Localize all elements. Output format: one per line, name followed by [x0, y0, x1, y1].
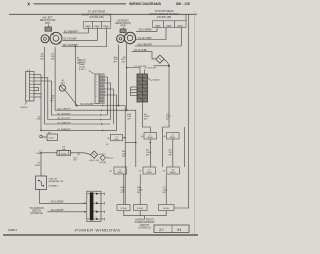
wire: junction down to splice dot — [74, 47, 76, 105]
svg-text:2: 2 — [96, 192, 97, 194]
wire conn B pin2 riser — [144, 70, 146, 75]
label A10 12R/BK — [50, 201, 64, 204]
motor M1 (left rear window motor) — [41, 32, 62, 44]
svg-text:J938W-1: J938W-1 — [8, 230, 18, 232]
label under c1 — [122, 150, 127, 158]
svg-text:BK*: BK* — [122, 62, 126, 64]
svg-text:7: 7 — [26, 93, 27, 95]
svg-text:PINK: PINK — [94, 27, 100, 29]
svg-text:FUSE: FUSE — [61, 154, 67, 156]
svg-text:(LEFT): (LEFT) — [79, 69, 86, 71]
svg-text:(ON 8W-135): (ON 8W-135) — [157, 16, 172, 19]
wire C2 label stub to connector B pin — [126, 67, 140, 74]
svg-text:BLACK: BLACK — [153, 78, 161, 81]
svg-text:B3 14YL/WT*: B3 14YL/WT* — [58, 118, 71, 120]
label F2 14RD upper — [36, 116, 41, 120]
label Q26 14BK/WT — [137, 44, 153, 46]
component G1 box — [42, 132, 57, 140]
splice diamond S3 — [91, 151, 98, 158]
wire fan pin stubs to feed — [34, 74, 41, 76]
svg-text:1: 1 — [96, 76, 97, 78]
label on c1 drop — [127, 113, 132, 121]
right page border — [194, 11, 196, 235]
wire M1 pin3 — [62, 28, 107, 46]
switch block row1 box2 — [144, 133, 157, 140]
svg-text:3: 3 — [26, 80, 27, 82]
svg-text:PINK: PINK — [103, 27, 109, 29]
label above f3 — [163, 187, 169, 194]
label C2 14YL/BK — [134, 66, 147, 68]
label A2 on motor1 drop — [50, 95, 55, 103]
svg-text:WT*: WT* — [127, 119, 131, 121]
switch block row2 box3 — [167, 167, 180, 174]
svg-text:BK*: BK* — [163, 192, 167, 194]
ref diamond 8W-12 — [100, 155, 114, 164]
node: dot M2A on B2 wire — [118, 105, 120, 107]
label SET 14RD/BK — [63, 45, 79, 47]
svg-text:PANEL: PANEL — [170, 171, 176, 174]
svg-text:3: 3 — [96, 82, 97, 84]
label B2 14YL down-wire — [121, 57, 127, 64]
svg-text:WIRING DIAGRAMS: WIRING DIAGRAMS — [129, 2, 162, 6]
svg-text:PANEL: PANEL — [117, 171, 123, 174]
callout: to ignition switch — [29, 208, 44, 215]
svg-text:PINK: PINK — [166, 26, 172, 28]
svg-text:(30 AMP): (30 AMP) — [49, 185, 58, 188]
motor M1 label (in left rear door) — [40, 17, 56, 25]
in-line connector ring on feed — [40, 135, 43, 138]
svg-text:PANEL: PANEL — [147, 136, 153, 139]
svg-text:A10 12R/BK*: A10 12R/BK* — [50, 201, 64, 204]
svg-text:B2 14RD/BK*: B2 14RD/BK* — [58, 113, 71, 115]
fuse box f3 — [159, 205, 175, 211]
wire: M2 down A — [118, 45, 120, 106]
callout: to right rear door window switch — [150, 10, 179, 19]
switch block row2 box2 — [143, 167, 156, 174]
fuse box f2 — [134, 205, 148, 211]
wire M1 pin2 — [63, 28, 98, 40]
wire A pin1 drop — [104, 77, 108, 115]
wire fan pin2 — [34, 78, 111, 120]
motor M2 (right rear window motor) — [117, 32, 136, 43]
label T50 under wire — [73, 157, 77, 161]
header title — [129, 2, 190, 6]
label above splice — [61, 79, 66, 84]
label B2 14BR/WT — [64, 31, 79, 33]
switch col c5 — [172, 139, 174, 167]
node dot c2 link — [135, 142, 137, 144]
label B2 14YL/BK splice run — [81, 104, 95, 106]
label A2 14B down-wire — [40, 53, 45, 61]
wire feed to breaker — [40, 154, 42, 176]
footer drawing number — [8, 230, 18, 232]
wire diamond to dot — [164, 60, 169, 66]
label BLACK for connector B — [153, 78, 161, 81]
switch col c4 — [162, 131, 164, 167]
svg-text:BK*: BK* — [144, 119, 148, 121]
motor M2 connector stub — [120, 29, 126, 33]
wire: M1 down A (to band) — [45, 47, 110, 124]
wire A pin7 drop — [104, 95, 117, 130]
svg-text:FUSE: FUSE — [137, 208, 143, 210]
label 8W-12 — [90, 144, 110, 162]
svg-text:E2 14YL/BK*: E2 14YL/BK* — [64, 39, 78, 41]
label under c3 — [146, 150, 152, 157]
wire fan pin3 — [34, 81, 108, 115]
svg-text:8W-12: 8W-12 — [107, 158, 114, 160]
svg-text:REAR DOOR): REAR DOOR) — [115, 22, 131, 25]
switch block row1 box3 — [167, 133, 180, 140]
link box1 to c1 — [123, 137, 126, 139]
in-line connector mark — [78, 152, 80, 155]
label under c5 — [169, 150, 175, 157]
svg-text:14R: 14R — [36, 119, 40, 121]
stub A pin2 — [104, 79, 106, 81]
node: dot under diamond — [168, 65, 170, 67]
fuse F8 — [57, 147, 71, 156]
splice diamond S2 — [156, 55, 164, 63]
connector B (right door, hatched) — [137, 74, 148, 102]
wire A pin3 drop — [104, 83, 111, 120]
svg-text:PINK: PINK — [155, 26, 161, 28]
junction on SET wire — [75, 46, 77, 48]
svg-text:BK*: BK* — [137, 192, 141, 194]
svg-text:(M): (M) — [41, 58, 45, 60]
node dot c3 — [150, 142, 152, 144]
wire riser callout-R to rule — [185, 14, 187, 20]
svg-text:POWER WINDOWS: POWER WINDOWS — [75, 227, 121, 232]
svg-text:BK*: BK* — [166, 119, 170, 121]
label on B drop — [144, 114, 150, 121]
wire B2 splice run — [77, 106, 126, 135]
svg-text:(ON 8W-12): (ON 8W-12) — [138, 227, 151, 229]
svg-text:WT*: WT* — [50, 100, 54, 102]
svg-text:4: 4 — [96, 85, 97, 87]
connector bracket left (PINK cells) — [84, 21, 111, 28]
svg-text:(M): (M) — [51, 58, 55, 60]
switch col c3 — [149, 139, 151, 167]
connector bracket right (PINK cells) — [153, 21, 187, 28]
page mark X — [27, 2, 31, 7]
motor M2 label (in right rear door) — [115, 19, 131, 27]
svg-text:WT*: WT* — [121, 192, 125, 194]
stub A pin6 — [104, 91, 106, 93]
label E2 14YL/BK — [64, 39, 78, 41]
wire M1 pin1 — [63, 28, 89, 33]
node: dot M2B — [126, 109, 128, 111]
node: feed junction — [40, 130, 42, 132]
label circuit breaker — [49, 179, 64, 188]
svg-text:2: 2 — [26, 77, 27, 79]
svg-text:8: 8 — [26, 96, 27, 98]
svg-text:FUSE: FUSE — [163, 208, 169, 210]
svg-text:8: 8 — [96, 217, 97, 219]
svg-text:7: 7 — [96, 94, 97, 96]
svg-text:A10 14R/BK*: A10 14R/BK* — [139, 29, 153, 32]
label A1 14R (A) — [77, 57, 81, 65]
label F2 14RD lower — [35, 162, 41, 166]
col f2 feed — [139, 174, 141, 205]
connector C1 (left bulkhead) — [26, 70, 35, 101]
node dot c1 — [124, 137, 126, 139]
label Q1 14YL/BK — [138, 38, 152, 40]
svg-text:FUSE: FUSE — [121, 208, 127, 210]
wire to fuse — [41, 152, 57, 154]
svg-text:Q1 14YL/BK*: Q1 14YL/BK* — [138, 38, 152, 40]
riser c6 top — [183, 127, 185, 131]
svg-text:94: 94 — [177, 227, 182, 232]
svg-text:(ON 8W-12): (ON 8W-12) — [30, 213, 43, 215]
svg-text:ZJ: ZJ — [159, 227, 163, 232]
wire splice to dot — [65, 90, 76, 105]
wire fuse to diamond — [71, 153, 91, 155]
wire A pin5 drop — [104, 89, 114, 124]
wire connector B bottom drop — [142, 102, 150, 133]
svg-text:PANEL: PANEL — [170, 136, 176, 139]
connector A (left door) — [95, 74, 104, 103]
svg-text:MTR: MTR — [121, 26, 126, 28]
arrow to connector B — [148, 78, 152, 81]
label A10 14R/BK — [139, 29, 153, 32]
svg-text:BREAKER #28: BREAKER #28 — [49, 180, 64, 183]
svg-text:G201: G201 — [49, 138, 55, 140]
band wire labels — [58, 108, 72, 111]
svg-text:PINK: PINK — [178, 26, 184, 28]
wire M2 pin2 — [136, 28, 166, 40]
switch col c1 — [124, 134, 126, 204]
row2 left tick labels — [110, 171, 166, 173]
circuit breaker CB28 — [36, 176, 47, 190]
svg-text:5: 5 — [96, 88, 97, 90]
svg-text:6: 6 — [96, 210, 97, 212]
link c1 to c2 — [125, 142, 136, 144]
svg-text:1: 1 — [26, 73, 27, 75]
svg-text:MOT: MOT — [61, 82, 66, 84]
svg-text:B2 14BR/WT*: B2 14BR/WT* — [64, 31, 79, 33]
svg-text:REAR DOOR): REAR DOOR) — [40, 19, 56, 22]
arrow to connector A — [89, 71, 95, 75]
label BLACK under connector C1 — [21, 102, 29, 109]
in-line marks on band wires — [100, 105, 103, 132]
svg-text:BLACK: BLACK — [21, 106, 29, 109]
top rule — [9, 13, 197, 15]
svg-text:(M) (B): (M) (B) — [100, 162, 107, 164]
footer rule — [3, 234, 198, 236]
svg-text:E3 14BR/WT*: E3 14BR/WT* — [58, 129, 72, 131]
svg-text:C2 14YL/BK*: C2 14YL/BK* — [134, 66, 147, 68]
wire from dot to left — [154, 65, 170, 67]
svg-text:MTR: MTR — [45, 23, 50, 25]
label Q 14YL/BK on drop — [166, 114, 172, 121]
fuse box f1 — [117, 205, 130, 211]
wire M2 pin3 — [135, 28, 182, 47]
motor M1 connector stub — [45, 27, 52, 31]
wire: M1 down B (to band) — [55, 47, 127, 110]
label A10 14R/WT down-wire — [113, 56, 118, 64]
bus under fuses — [124, 211, 166, 220]
switch col c6 — [183, 131, 185, 167]
svg-text:E2 14BR/WT*: E2 14BR/WT* — [58, 122, 72, 124]
svg-text:8: 8 — [96, 97, 97, 99]
wire breaker to connector C pin2 — [40, 190, 86, 204]
svg-text:Q2 14YL/BK: Q2 14YL/BK — [134, 50, 147, 52]
svg-text:BK*: BK* — [169, 154, 173, 156]
svg-text:4: 4 — [96, 202, 97, 204]
switch col c2 — [135, 133, 137, 168]
svg-text:B2 14YL/BK*: B2 14YL/BK* — [81, 104, 95, 106]
label above f1 — [121, 186, 126, 194]
svg-text:A11 12R/WT*: A11 12R/WT* — [50, 209, 64, 212]
svg-text:A10 14R/WT*: A10 14R/WT* — [58, 108, 72, 111]
callout: to left rear door window switch — [82, 11, 111, 20]
svg-text:14RD: 14RD — [35, 165, 41, 167]
svg-text:PANEL: PANEL — [114, 138, 120, 141]
switch block row1 box1 — [111, 134, 123, 141]
label under diamond — [145, 68, 157, 70]
footer POWER WINDOWS — [75, 227, 121, 232]
arrow into pin2 — [84, 202, 86, 204]
svg-text:4: 4 — [26, 83, 27, 85]
wire M2 pin4 to diamond — [132, 52, 156, 59]
svg-text:Q26 14BK/WT: Q26 14BK/WT — [137, 44, 153, 46]
col f3 feed — [165, 175, 167, 205]
svg-text:(ON 8W-135): (ON 8W-135) — [89, 16, 104, 19]
wire M2 pin1 — [136, 28, 157, 32]
label A11 12R/WT — [50, 209, 64, 212]
wire: M2 down B — [126, 44, 128, 111]
header rule left — [34, 3, 127, 5]
svg-text:30A: 30A — [62, 148, 66, 151]
wire riser callout-L to rule — [110, 14, 112, 21]
label BLACK OUTER for connector A — [79, 58, 86, 71]
connector C2 (switch feed) — [87, 191, 105, 221]
svg-text:E2 14YL/BK: E2 14YL/BK — [145, 68, 157, 70]
wire: dot down to switch column — [163, 66, 169, 131]
col f1 feed — [123, 174, 125, 205]
svg-text:WT*: WT* — [122, 156, 126, 158]
label E2 14B down-wire — [50, 54, 55, 61]
wire band2 elbow to c2 — [127, 110, 136, 132]
arrow into pin3 — [84, 211, 86, 213]
wire: long feed down right side — [174, 14, 189, 208]
svg-text:PINK: PINK — [85, 27, 91, 29]
switch assembly label — [135, 220, 155, 230]
svg-text:BK*: BK* — [146, 154, 150, 156]
row1 left tick labels — [108, 135, 167, 140]
svg-text:6: 6 — [26, 89, 27, 91]
node: splice dot — [76, 105, 78, 107]
svg-text:2: 2 — [96, 79, 97, 81]
label F2 14RD mid — [36, 151, 42, 155]
wire ignition to connector C pin3 — [48, 211, 86, 213]
svg-text:14R: 14R — [73, 160, 77, 162]
svg-text:8W - 135: 8W - 135 — [176, 2, 190, 6]
label above f2 — [137, 186, 143, 194]
node: fuse junction — [40, 152, 42, 154]
svg-text:PANEL: PANEL — [146, 171, 152, 174]
splice circle S1 — [59, 85, 65, 91]
label Q2 14YL/BK — [134, 50, 147, 52]
footer ZJ 94 box — [154, 225, 189, 233]
svg-text:6: 6 — [96, 91, 97, 93]
switch block row2 box1 — [114, 167, 127, 174]
wire: main feed down — [41, 75, 117, 131]
wires into connector B left — [131, 87, 138, 96]
svg-text:(8W-1-10): (8W-1-10) — [90, 160, 99, 162]
svg-text:5: 5 — [26, 86, 27, 88]
svg-text:WT*: WT* — [113, 62, 117, 64]
